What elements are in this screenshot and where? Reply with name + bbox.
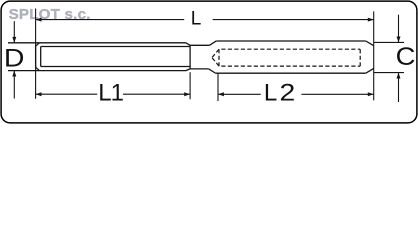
stud left end face <box>35 46 37 67</box>
flare neck-to-barrel top <box>209 41 216 45</box>
arrowhead C top <box>397 37 401 43</box>
dimension line C bottom segment <box>398 73 400 102</box>
thread chamfer vertical <box>40 47 42 67</box>
svg-text:SPLOT s.c.: SPLOT s.c. <box>9 7 91 23</box>
arrowhead L1 left <box>36 92 42 96</box>
svg-text:D: D <box>4 44 25 72</box>
taper stud-to-neck top <box>186 43 190 46</box>
taper stud-to-neck bottom <box>186 69 190 71</box>
dimension line L2 left segment <box>218 93 261 95</box>
extension line right (part right face, for L, C, L2) <box>373 11 375 100</box>
thread minor bottom line <box>41 66 190 68</box>
barrel right chamfer bottom <box>366 68 374 73</box>
stud major bottom line (with D bottom extension) <box>8 70 186 72</box>
svg-text:L: L <box>98 80 111 107</box>
extension line L1 right <box>189 72 191 99</box>
extension line L2 left <box>217 74 219 102</box>
arrowhead D top <box>12 37 16 43</box>
svg-text:1: 1 <box>111 80 124 107</box>
bore cone dashed upper <box>212 49 219 57</box>
stud left chamfer top <box>36 43 40 46</box>
extension line left (part left face, for L, L1) <box>35 9 37 99</box>
border frame <box>1 1 417 123</box>
dimension line L1 left segment <box>36 93 98 95</box>
thread end vertical <box>189 45 191 69</box>
bore dashed top line <box>219 48 360 50</box>
neck top line <box>190 44 209 46</box>
flare neck-to-barrel bottom <box>209 69 216 73</box>
neck bottom line <box>190 68 209 70</box>
arrowhead L2 right <box>368 92 374 96</box>
bore dashed bottom line <box>219 65 360 67</box>
arrowhead L left <box>36 18 42 22</box>
dimension line L2 right segment <box>302 93 374 95</box>
svg-text:L: L <box>191 8 202 29</box>
barrel bottom line <box>215 72 366 74</box>
stud major top line (with D top extension) <box>8 42 186 44</box>
dimension line L1 right segment <box>123 93 190 95</box>
dimension line L right segment <box>213 19 374 21</box>
bore dashed right end <box>359 49 361 66</box>
svg-text:2: 2 <box>280 79 296 106</box>
arrowhead L1 right <box>184 92 190 96</box>
extension line C bottom <box>374 72 404 74</box>
arrowhead L right <box>368 18 374 22</box>
dimension line D top segment <box>13 21 15 43</box>
dimension line D bottom segment <box>13 71 15 99</box>
bore cone dashed lower <box>212 58 219 67</box>
stud left chamfer bottom <box>36 67 40 70</box>
arrowhead C bottom <box>397 73 401 79</box>
barrel right chamfer top <box>366 41 374 46</box>
svg-text:C: C <box>396 42 416 71</box>
dimension line C top segment <box>398 15 400 43</box>
bore cone base dashed <box>218 49 220 66</box>
dimension line L left segment <box>36 19 185 21</box>
thread minor top line <box>41 46 190 48</box>
arrowhead L2 left <box>218 92 224 96</box>
barrel top line <box>216 40 365 42</box>
extension line C top <box>374 41 404 43</box>
arrowhead D bottom <box>12 71 16 77</box>
svg-text:L: L <box>264 80 277 107</box>
